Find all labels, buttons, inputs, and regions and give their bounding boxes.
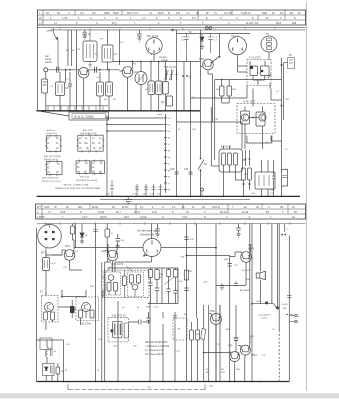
switch positions note box xyxy=(145,342,170,356)
label 7W xyxy=(234,265,238,267)
svg-text:FM 1273 (U.C.U.F): FM 1273 (U.C.U.F) xyxy=(42,181,61,183)
svg-text:TR10: TR10 xyxy=(251,354,258,357)
svg-text:A.M 1273(K.U.F): A.M 1273(K.U.F) xyxy=(42,177,59,180)
label TC xyxy=(266,33,270,36)
svg-text:12 B: 12 B xyxy=(60,211,65,214)
wire verticals TR8 area xyxy=(204,305,220,382)
label C5B xyxy=(203,282,208,284)
capacitor cluster 1 xyxy=(148,283,152,304)
svg-text:TR6: TR6 xyxy=(101,251,106,254)
svg-text:ACL AMBL: ACL AMBL xyxy=(240,289,251,292)
label C21 xyxy=(181,37,186,42)
terminal circle b xyxy=(201,188,204,191)
svg-text:(Substitute B): (Substitute B) xyxy=(140,234,154,237)
resistor R51 zigzag xyxy=(201,328,206,339)
svg-text:OLB: OLB xyxy=(44,206,49,209)
AF dashed box left xyxy=(42,296,59,323)
svg-text:A·W 1277: A·W 1277 xyxy=(243,100,256,104)
svg-text:C17: C17 xyxy=(133,71,138,74)
black component on run xyxy=(265,302,268,305)
svg-text:FM(U.K.)(U.F.): FM(U.K.)(U.F.) xyxy=(44,159,58,161)
labels near bus xyxy=(206,369,226,388)
label AUX AMP xyxy=(248,244,255,251)
voltage table bottom text xyxy=(37,206,297,219)
svg-text:R Q: R Q xyxy=(112,22,117,25)
coil L20 xyxy=(46,347,49,357)
wire module outputs to bus xyxy=(213,122,246,196)
coil L7 box xyxy=(156,81,163,95)
label loudspeaker xyxy=(258,314,271,320)
svg-text:A.M Dec: A.M Dec xyxy=(47,129,56,132)
scattered value labels top schematic xyxy=(50,39,290,196)
svg-text:5,4(N,U): 5,4(N,U) xyxy=(241,12,251,15)
svg-text:WT: WT xyxy=(37,206,41,209)
transistor TR2 xyxy=(122,67,133,78)
label TALL A xyxy=(231,35,239,38)
svg-text:FLULT 723: FLULT 723 xyxy=(246,22,259,25)
svg-text:24,7(5): 24,7(5) xyxy=(224,12,232,15)
svg-text:L.T: L.T xyxy=(39,22,43,25)
node dot run xyxy=(251,303,253,305)
svg-text:8q3: 8q3 xyxy=(78,206,83,209)
wire rail y70 xyxy=(91,69,120,71)
junction dots bus bottom top-schem xyxy=(176,196,178,198)
label C8 xyxy=(65,87,69,90)
capacitor row C65 xyxy=(173,316,177,324)
svg-text:6w: 6w xyxy=(92,143,95,145)
label C61 xyxy=(121,240,126,242)
svg-text:LE: LE xyxy=(57,12,60,15)
label AM 1273 module xyxy=(112,315,126,318)
svg-text:C 62: C 62 xyxy=(154,307,159,309)
speaker jack symbol xyxy=(288,58,295,69)
label monitor socket xyxy=(159,56,168,62)
resistor R6 box xyxy=(167,96,173,106)
connector pinout AM 1272 box xyxy=(46,161,62,174)
terminal strip column xyxy=(106,115,108,196)
svg-text:25/7: 25/7 xyxy=(124,216,129,219)
svg-text:2,1/7: 2,1/7 xyxy=(82,216,88,219)
coil L6 box xyxy=(148,81,155,95)
wire cluster bottom xyxy=(148,303,178,305)
capacitor out xyxy=(139,320,142,325)
label R51 xyxy=(197,334,202,336)
return line below bus xyxy=(68,382,205,390)
wire TR5 leads xyxy=(201,34,220,123)
capacitor C10 xyxy=(95,67,97,73)
wire speaker bottom run xyxy=(252,304,278,310)
label AM Dec xyxy=(46,129,57,135)
component right col xyxy=(272,160,275,196)
label AM 1273 below xyxy=(42,177,61,183)
capacitor on row 2 xyxy=(234,281,238,286)
label aerial xyxy=(47,30,53,33)
svg-text:TR4 LIF TR: TR4 LIF TR xyxy=(164,67,176,69)
labels caps xyxy=(146,307,159,309)
speaker xyxy=(256,273,260,278)
svg-text:1,7: 1,7 xyxy=(54,22,58,25)
ground (C61) xyxy=(116,246,120,249)
ground (C55) xyxy=(155,234,159,237)
labels 105 746 xyxy=(113,346,137,348)
ground symbol bottom xyxy=(125,200,133,204)
main bus top schematic xyxy=(37,110,136,112)
svg-text:MAX: MAX xyxy=(276,22,282,25)
label A-W 1277 xyxy=(243,100,256,104)
ground (D2) xyxy=(200,47,204,50)
svg-text:4k,49: 4k,49 xyxy=(242,211,249,214)
svg-text:TR4: TR4 xyxy=(65,245,70,248)
node dot row xyxy=(215,247,217,249)
label 1W xyxy=(61,371,65,373)
svg-text:E.K.V. 2250: E.K.V. 2250 xyxy=(75,115,94,119)
labels caps xyxy=(106,194,162,196)
svg-text:C24: C24 xyxy=(184,168,189,171)
label C417 xyxy=(51,263,58,265)
wire horizontal y340 xyxy=(37,339,64,341)
wire TR1 side leads xyxy=(76,69,101,71)
module parts A-W left xyxy=(241,111,250,124)
capacitor C1 (socket) xyxy=(42,79,48,93)
module parts F-H xyxy=(250,66,258,76)
transistor TR4 xyxy=(64,250,75,261)
resistor R1 box xyxy=(56,82,65,96)
wire emitter pair verticals xyxy=(211,80,219,167)
DIN socket TFL12AS xyxy=(146,38,162,54)
svg-text:A.M 1279: A.M 1279 xyxy=(83,129,93,132)
connector pinout FW1274 box right xyxy=(91,161,104,174)
aerial socket xyxy=(44,68,48,72)
wire TR4 base xyxy=(46,255,62,258)
wire TR4 emitter xyxy=(70,260,83,270)
svg-text:B.P 40-45: B.P 40-45 xyxy=(221,147,232,149)
wire col C xyxy=(161,268,163,304)
svg-text:TERMS FROM TRIAL SITE OF PRINT: TERMS FROM TRIAL SITE OF PRINTED PANEL xyxy=(55,187,102,190)
svg-text:3,0: 3,0 xyxy=(80,12,84,15)
DIN socket TALL A xyxy=(229,37,247,55)
svg-text:(U.B.H./U.): (U.B.H./U.) xyxy=(46,133,57,135)
E.K.V. title box xyxy=(69,112,109,120)
wire EKV bracket xyxy=(38,111,70,116)
label aerial earth xyxy=(156,110,163,116)
label TR5 xyxy=(199,57,204,61)
svg-text:8,2: 8,2 xyxy=(280,12,284,15)
svg-text:7,6: 7,6 xyxy=(186,12,190,15)
ground (C20) xyxy=(137,38,141,41)
label TR10 xyxy=(251,354,258,357)
wire socket to rail xyxy=(153,54,155,62)
svg-text:14,8: 14,8 xyxy=(152,211,157,214)
transistor TR5 xyxy=(203,59,214,70)
wire row y285 xyxy=(216,284,246,286)
capacitor C24 xyxy=(189,172,193,174)
FM module left cell xyxy=(106,272,121,295)
main bus top schematic right part xyxy=(135,110,200,112)
wire verticals bottom middle xyxy=(118,301,175,382)
wire verticals top-left xyxy=(68,30,77,111)
label ET2 xyxy=(41,251,47,255)
svg-text:C25: C25 xyxy=(170,168,175,171)
svg-text:† PA. BYD. CONNECT ONE: † PA. BYD. CONNECT ONE xyxy=(62,184,89,187)
svg-text:RUN: RUN xyxy=(158,12,164,15)
wire x184 xyxy=(183,62,185,111)
wire x65 xyxy=(65,70,67,83)
label C17 xyxy=(133,71,138,74)
node dots right rail xyxy=(281,64,283,66)
pin circles xyxy=(205,27,208,30)
resistor 1k top xyxy=(70,226,74,234)
wire mid verticals xyxy=(177,30,201,197)
label 470 xyxy=(271,190,275,192)
label EKV 2250 xyxy=(75,115,94,119)
wire rail y61 xyxy=(113,61,201,63)
capacitor on border xyxy=(287,295,291,297)
junction dots bottom bus xyxy=(63,381,65,383)
capacitor C23 xyxy=(83,30,88,36)
wire horizontal y122 xyxy=(177,121,213,123)
wire TR4 row link xyxy=(74,247,143,249)
capacitor cluster 2 xyxy=(155,288,159,304)
svg-text:SER: SER xyxy=(262,12,267,15)
label C24 xyxy=(184,168,189,171)
node dots pair xyxy=(281,234,283,236)
svg-text:HLX 7 C4: HLX 7 C4 xyxy=(127,12,138,15)
coil small on rail xyxy=(102,290,105,298)
svg-text:Sub-alternative type: Sub-alternative type xyxy=(137,230,158,233)
switch box left xyxy=(40,338,52,350)
svg-text:TR8: TR8 xyxy=(210,310,215,313)
ground (D1) xyxy=(80,241,84,244)
wire right border xyxy=(288,235,290,381)
label IF block xyxy=(221,147,232,149)
svg-text:(36,8): (36,8) xyxy=(100,216,107,219)
IF transformer L3 box xyxy=(102,45,113,62)
svg-text:TALL A: TALL A xyxy=(231,35,239,38)
wire F-H to A-W links xyxy=(253,89,282,107)
svg-text:1,7: 1,7 xyxy=(142,17,146,20)
svg-text:S2 closes at M.W: S2 closes at M.W xyxy=(145,353,164,356)
node dot rail xyxy=(221,79,223,81)
svg-text:TR5: TR5 xyxy=(199,57,204,61)
capacitor cluster D xyxy=(166,289,170,304)
svg-text:4,1: 4,1 xyxy=(172,206,176,209)
svg-text:F.M 1274: F.M 1274 xyxy=(111,262,124,266)
capacitor C56 xyxy=(184,237,188,240)
node dot xyxy=(119,61,121,63)
scattered value labels bottom schematic xyxy=(52,231,275,371)
electrolytic black xyxy=(70,306,75,313)
svg-text:C4,17: C4,17 xyxy=(51,263,58,265)
transistor TR10 xyxy=(240,345,250,355)
right cluster rail xyxy=(107,268,178,304)
label R6 xyxy=(161,101,165,104)
wire y79.5 rail to module xyxy=(215,79,282,81)
resistor R8 box xyxy=(163,82,169,95)
labels right bottom xyxy=(282,304,288,310)
capacitor black on x236 xyxy=(234,338,238,340)
label TFL 12 AS xyxy=(147,35,159,38)
labels Jk xyxy=(65,370,101,372)
junction dot left xyxy=(61,296,63,298)
capacitor below R31 xyxy=(184,288,188,291)
pot arrow xyxy=(165,277,175,285)
resistor small xyxy=(56,367,60,374)
IF block resistors xyxy=(222,153,226,165)
svg-text:74,9: 74,9 xyxy=(182,216,187,219)
module AM1273 dashed box xyxy=(108,318,129,342)
label 52 xyxy=(189,31,192,34)
label car aerial socket xyxy=(45,55,52,64)
resistor R11 box xyxy=(220,86,225,96)
DIN socket bottom xyxy=(143,239,161,257)
wire parallel rail xyxy=(102,248,108,382)
resistor R31 box xyxy=(184,270,188,280)
wire TR2 collector column xyxy=(119,30,121,65)
resistor pair below trim xyxy=(242,168,246,180)
capacitor C22 xyxy=(208,34,212,54)
svg-text:R: R xyxy=(168,12,170,15)
wire TR2 collector junction xyxy=(132,61,134,63)
svg-text:TR9: TR9 xyxy=(228,345,233,348)
label 2 xyxy=(287,229,289,231)
svg-text:1R: 1R xyxy=(221,369,224,371)
resistor box right cluster D xyxy=(166,270,170,277)
wire TC drop xyxy=(268,52,270,60)
terminal marks xyxy=(286,314,293,316)
svg-text:C5B: C5B xyxy=(203,282,208,284)
svg-text:AMP1: AMP1 xyxy=(248,248,255,251)
svg-text:8k,r12: 8k,r12 xyxy=(220,211,228,214)
label C25 xyxy=(170,168,175,171)
wire TR9 base xyxy=(204,352,230,354)
wire arrow rail xyxy=(171,29,177,31)
label 7B xyxy=(289,54,292,57)
label AM 1279 xyxy=(80,129,96,135)
svg-text:928: 928 xyxy=(292,22,297,25)
dashed box B bottom xyxy=(173,318,187,340)
IF block box rounded xyxy=(219,149,243,172)
svg-text:FLAC: FLAC xyxy=(122,206,129,209)
svg-text:7kA: 7kA xyxy=(84,142,88,145)
label L1 xyxy=(78,48,81,51)
bottom caps row C14-C18 xyxy=(110,180,114,196)
AM1273 side rect xyxy=(124,323,128,338)
label FW1274 xyxy=(76,177,98,182)
ground (C23) xyxy=(83,36,88,39)
svg-text:F,B: F,B xyxy=(176,12,180,15)
wire cross connects left xyxy=(58,307,76,309)
svg-text:socket: socket xyxy=(261,317,268,320)
DIN socket TC xyxy=(261,36,277,52)
wire A-W outputs xyxy=(245,136,282,150)
output block box xyxy=(255,172,275,189)
node dots x184 xyxy=(182,75,184,77)
label C56 xyxy=(190,239,195,241)
svg-text:F·H 1272: F·H 1272 xyxy=(249,56,261,60)
wire dashed lower rail xyxy=(278,330,280,382)
main bus bottom schematic xyxy=(37,381,290,383)
label L20 xyxy=(54,351,57,353)
bottom bus top schematic xyxy=(37,195,301,197)
ground (C56b) xyxy=(236,234,240,237)
resistor box right cluster E xyxy=(173,270,177,278)
wire TR6 connections xyxy=(105,244,117,272)
scan shadow bottom band xyxy=(0,393,339,398)
connector pinout AM Dec box xyxy=(46,136,61,152)
FM module right cell xyxy=(127,272,143,296)
connector box edge ticks xyxy=(45,135,62,153)
label F-H 1272 xyxy=(249,56,261,60)
diode D1 xyxy=(80,233,84,237)
labels AC xyxy=(240,269,251,292)
wire rail into FM module xyxy=(105,262,111,382)
terminal circles right xyxy=(295,314,298,317)
wire socket down xyxy=(46,70,76,111)
node dots rail61 xyxy=(140,61,142,63)
svg-text:earth: earth xyxy=(157,113,163,116)
trimmer cluster xyxy=(167,69,177,80)
capacitor C55 stub xyxy=(155,224,159,235)
label 746 return xyxy=(147,387,151,389)
svg-text:A.M 1272 (UKW): A.M 1272 (UKW) xyxy=(44,155,61,158)
svg-text:(Pr.U.B4/8 (Ver.U5/4)): (Pr.U.B4/8 (Ver.U5/4)) xyxy=(76,179,98,182)
svg-text:F.M 1274a: F.M 1274a xyxy=(80,324,91,326)
label 23 xyxy=(88,33,91,36)
wire ET2 down xyxy=(45,248,47,295)
svg-text:aerial/: aerial/ xyxy=(156,110,162,113)
page edge line right xyxy=(306,2,308,391)
connector pinout AM 1279 box xyxy=(78,135,103,151)
left border wire xyxy=(37,25,39,111)
svg-text:7B: 7B xyxy=(289,54,292,57)
capacitor C56b stub xyxy=(236,224,240,235)
svg-text:C+RD: C+RD xyxy=(282,304,288,306)
svg-text:TFL 12 AS: TFL 12 AS xyxy=(147,35,159,38)
black blob xyxy=(111,329,114,332)
resistor R5 box xyxy=(106,82,113,96)
wire table drops xyxy=(76,224,152,248)
AF dashed box right xyxy=(76,297,99,321)
connector pinout FW1274 box left xyxy=(76,161,90,174)
label AM 1272 UKW xyxy=(44,155,61,161)
capacitor C25 xyxy=(175,172,179,174)
power socket ET2 circle xyxy=(38,224,62,248)
module A-W 1277 dashed box xyxy=(237,104,275,134)
label TR4 xyxy=(65,245,70,248)
capacitor C17 oval xyxy=(135,72,147,85)
svg-text:A.M 1273 (?): A.M 1273 (?) xyxy=(112,315,126,318)
svg-text:9k,8q: 9k,8q xyxy=(92,206,99,209)
svg-text:(U.B.H./AG.U.F.): (U.B.H./AG.U.F.) xyxy=(80,132,96,135)
caption note xyxy=(55,184,102,191)
svg-text:24,27: 24,27 xyxy=(134,211,141,214)
node dots rail71 xyxy=(65,69,67,71)
label FM 1274 under xyxy=(80,324,91,326)
diode D2 xyxy=(200,37,204,41)
label 1k xyxy=(111,233,114,235)
label L3 xyxy=(95,53,117,56)
label TR8 xyxy=(210,310,215,313)
node dot C58 xyxy=(186,255,188,257)
wire right vertical rails xyxy=(282,58,284,196)
capacitor cluster E xyxy=(173,291,177,304)
schematic top rails xyxy=(38,28,306,30)
wire module left feeds xyxy=(238,66,248,72)
capacitor in loop xyxy=(282,176,286,178)
svg-text:40(5,1): 40(5,1) xyxy=(212,206,220,209)
svg-text:F.W 1274: F.W 1274 xyxy=(80,177,90,179)
capacitor row C64 xyxy=(146,312,150,324)
